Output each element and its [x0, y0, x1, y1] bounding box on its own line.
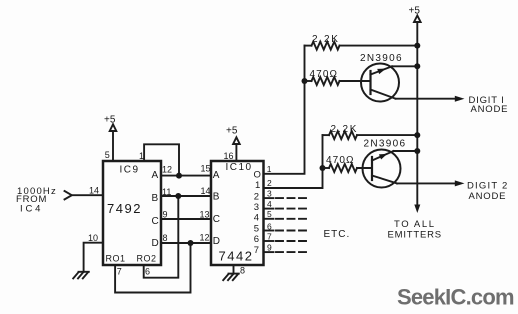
- IC9 internal labels: [106, 165, 159, 264]
- IC10 internal labels: [213, 162, 261, 263]
- svg-text:C: C: [152, 216, 159, 227]
- +5 rail label: [409, 5, 421, 16]
- svg-text:8: 8: [163, 233, 168, 243]
- wire node C: IC9 pin9 to IC10 pin13: [161, 218, 211, 220]
- pin 16 label and +5 text: [224, 125, 238, 161]
- svg-text:EMITTERS: EMITTERS: [388, 230, 442, 241]
- wire IC10 output 7 (pin 9) dashed stub: [264, 251, 310, 253]
- pin 7 label: [117, 267, 122, 277]
- svg-text:DIGIT 2: DIGIT 2: [467, 180, 508, 191]
- svg-text:D: D: [152, 238, 159, 249]
- svg-text:ANODE: ANODE: [469, 191, 507, 202]
- watermark SeekIC.com: [397, 285, 514, 310]
- IC U2 (IC10 7442) box: [211, 161, 264, 265]
- svg-text:+5: +5: [226, 125, 238, 136]
- resistor 2.2K (digit 1): [305, 42, 421, 50]
- svg-text:12: 12: [200, 232, 210, 242]
- node A pin labels 12 / 15: [162, 164, 211, 175]
- wire IC10 output 2 (pin 3) dashed stub: [264, 197, 310, 199]
- svg-text:14: 14: [201, 186, 211, 196]
- svg-text:4: 4: [254, 212, 259, 223]
- svg-text:IC4: IC4: [20, 203, 43, 214]
- Q1 label 2N3906: [360, 53, 403, 64]
- svg-text:5: 5: [254, 224, 259, 235]
- svg-text:1: 1: [267, 164, 272, 174]
- power +5 symbol above IC9 pin 5: [110, 124, 117, 161]
- svg-text:8: 8: [240, 265, 245, 275]
- svg-text:D: D: [213, 236, 220, 247]
- svg-text:2: 2: [254, 192, 259, 203]
- wire IC10 output 6 (pin 7) dashed stub: [264, 240, 310, 242]
- wire IC10 output 5 (pin 6) dashed stub: [264, 230, 310, 232]
- node B pin labels 11 / 14: [162, 186, 211, 197]
- label ETC.: [324, 229, 351, 240]
- svg-text:+5: +5: [409, 5, 421, 16]
- svg-text:1: 1: [255, 180, 260, 191]
- label TO ALL EMITTERS: [388, 219, 442, 241]
- transistor Q2 2N3906: [363, 150, 401, 188]
- svg-text:12: 12: [162, 164, 172, 174]
- power +5 symbol above IC10 pin 16: [233, 137, 240, 161]
- svg-text:10: 10: [88, 233, 98, 243]
- svg-text:RO2: RO2: [137, 253, 157, 263]
- svg-text:C: C: [213, 214, 220, 225]
- resistor 470 ohm (digit 1): [305, 77, 371, 85]
- svg-text:2N3906: 2N3906: [364, 138, 407, 149]
- pin 1 label: [139, 151, 144, 161]
- node D pin labels 8 / 12: [163, 232, 210, 243]
- 470 ohm label (digit 1): [310, 69, 339, 80]
- pin 10 label: [88, 233, 98, 243]
- 470 ohm label (digit 2): [326, 155, 355, 166]
- wire IC9 pin 7 (RO1) loop to node D: [115, 243, 190, 293]
- pin 6 label: [145, 267, 150, 277]
- power +5 rail top right: [414, 16, 421, 214]
- svg-text:O: O: [254, 169, 261, 180]
- svg-text:6: 6: [254, 234, 259, 245]
- svg-text:7442: 7442: [219, 248, 254, 263]
- wire IC9 pin 10 to ground: [84, 243, 103, 272]
- svg-text:TO ALL: TO ALL: [394, 219, 436, 230]
- svg-text:B: B: [213, 191, 220, 202]
- svg-text:11: 11: [162, 187, 171, 197]
- wire IC9 pin1 loop to node A: [144, 144, 179, 175]
- svg-text:7492: 7492: [107, 201, 142, 216]
- svg-text:B: B: [152, 193, 159, 204]
- svg-text:7: 7: [254, 245, 259, 256]
- wire node A: IC9 pin12 to IC10 pin15: [161, 173, 211, 179]
- svg-text:+5: +5: [104, 114, 116, 125]
- label DIGIT 1 ANODE: [469, 95, 509, 115]
- ground (IC10 pin 8): [223, 274, 239, 281]
- svg-text:5: 5: [267, 209, 272, 219]
- wire node D: IC9 pin8 to IC10 pin12: [161, 240, 211, 246]
- wire Q1 emitter to +5 rail: [392, 63, 420, 69]
- ground (left, IC9 pin 10): [73, 272, 89, 279]
- resistor 470 ohm (digit 2): [323, 164, 373, 172]
- svg-text:3: 3: [267, 189, 272, 199]
- pin 5 wire label: [104, 114, 116, 160]
- svg-text:IC9: IC9: [120, 165, 140, 176]
- node C pin labels 9 / 13: [163, 209, 210, 219]
- wire IC9 pin 6 (RO2) loop to node B: [144, 196, 179, 278]
- svg-text:A: A: [152, 170, 159, 181]
- 2.2K label (digit 1): [312, 34, 340, 45]
- wire IC10 output 1 (pin 2) up to digit 2 driver: [264, 135, 326, 188]
- svg-text:1: 1: [139, 151, 144, 161]
- svg-text:9: 9: [267, 243, 272, 253]
- wire IC10 output 3 (pin 4) dashed stub: [264, 208, 310, 210]
- IC U1 (IC9 7492) box: [103, 161, 161, 265]
- svg-text:2: 2: [267, 178, 272, 188]
- svg-text:2.2K: 2.2K: [331, 124, 359, 135]
- svg-text:RO1: RO1: [106, 253, 126, 263]
- svg-text:IC10: IC10: [226, 162, 253, 173]
- label DIGIT 2 ANODE: [467, 180, 508, 202]
- svg-text:14: 14: [89, 186, 99, 196]
- svg-text:ANODE: ANODE: [471, 104, 509, 115]
- 2.2K label (digit 2): [331, 124, 359, 135]
- svg-text:2.2K: 2.2K: [312, 34, 340, 45]
- svg-text:4: 4: [267, 199, 272, 209]
- wire Q2 emitter to +5 rail: [394, 148, 421, 154]
- svg-text:2N3906: 2N3906: [360, 53, 403, 64]
- svg-text:7: 7: [267, 231, 272, 241]
- svg-text:A: A: [213, 170, 220, 181]
- transistor Q1 2N3906: [361, 64, 399, 102]
- svg-text:470Ω: 470Ω: [326, 155, 355, 166]
- svg-text:5: 5: [105, 150, 110, 160]
- wire Q1 collector to DIGIT 1 ANODE: [396, 96, 465, 102]
- pin 8 label: [240, 265, 245, 275]
- wire input to IC9 pin 14: [65, 191, 104, 199]
- Q2 label 2N3906: [364, 138, 407, 149]
- svg-text:SeekIC.com: SeekIC.com: [397, 285, 514, 310]
- resistor 2.2K (digit 2): [323, 131, 421, 139]
- svg-text:9: 9: [163, 209, 168, 219]
- wire IC10 output 4 (pin 5) dashed stub: [264, 218, 310, 220]
- svg-text:7: 7: [117, 267, 122, 277]
- wire IC10 output 0 (pin 1) up to digit 1 driver: [264, 46, 308, 174]
- wire Q2 collector to DIGIT 2 ANODE: [397, 180, 465, 186]
- input label 1000Hz FROM IC4: [16, 186, 99, 215]
- svg-text:6: 6: [145, 267, 150, 277]
- IC10 right pin number labels: [267, 164, 272, 253]
- svg-text:16: 16: [224, 151, 234, 161]
- svg-text:13: 13: [200, 209, 210, 219]
- wire IC10 pin 8 to ground: [233, 265, 235, 274]
- wire node B: IC9 pin11 to IC10 pin14: [161, 193, 211, 199]
- svg-text:470Ω: 470Ω: [310, 69, 339, 80]
- svg-text:15: 15: [201, 164, 211, 174]
- svg-text:ETC.: ETC.: [324, 229, 351, 240]
